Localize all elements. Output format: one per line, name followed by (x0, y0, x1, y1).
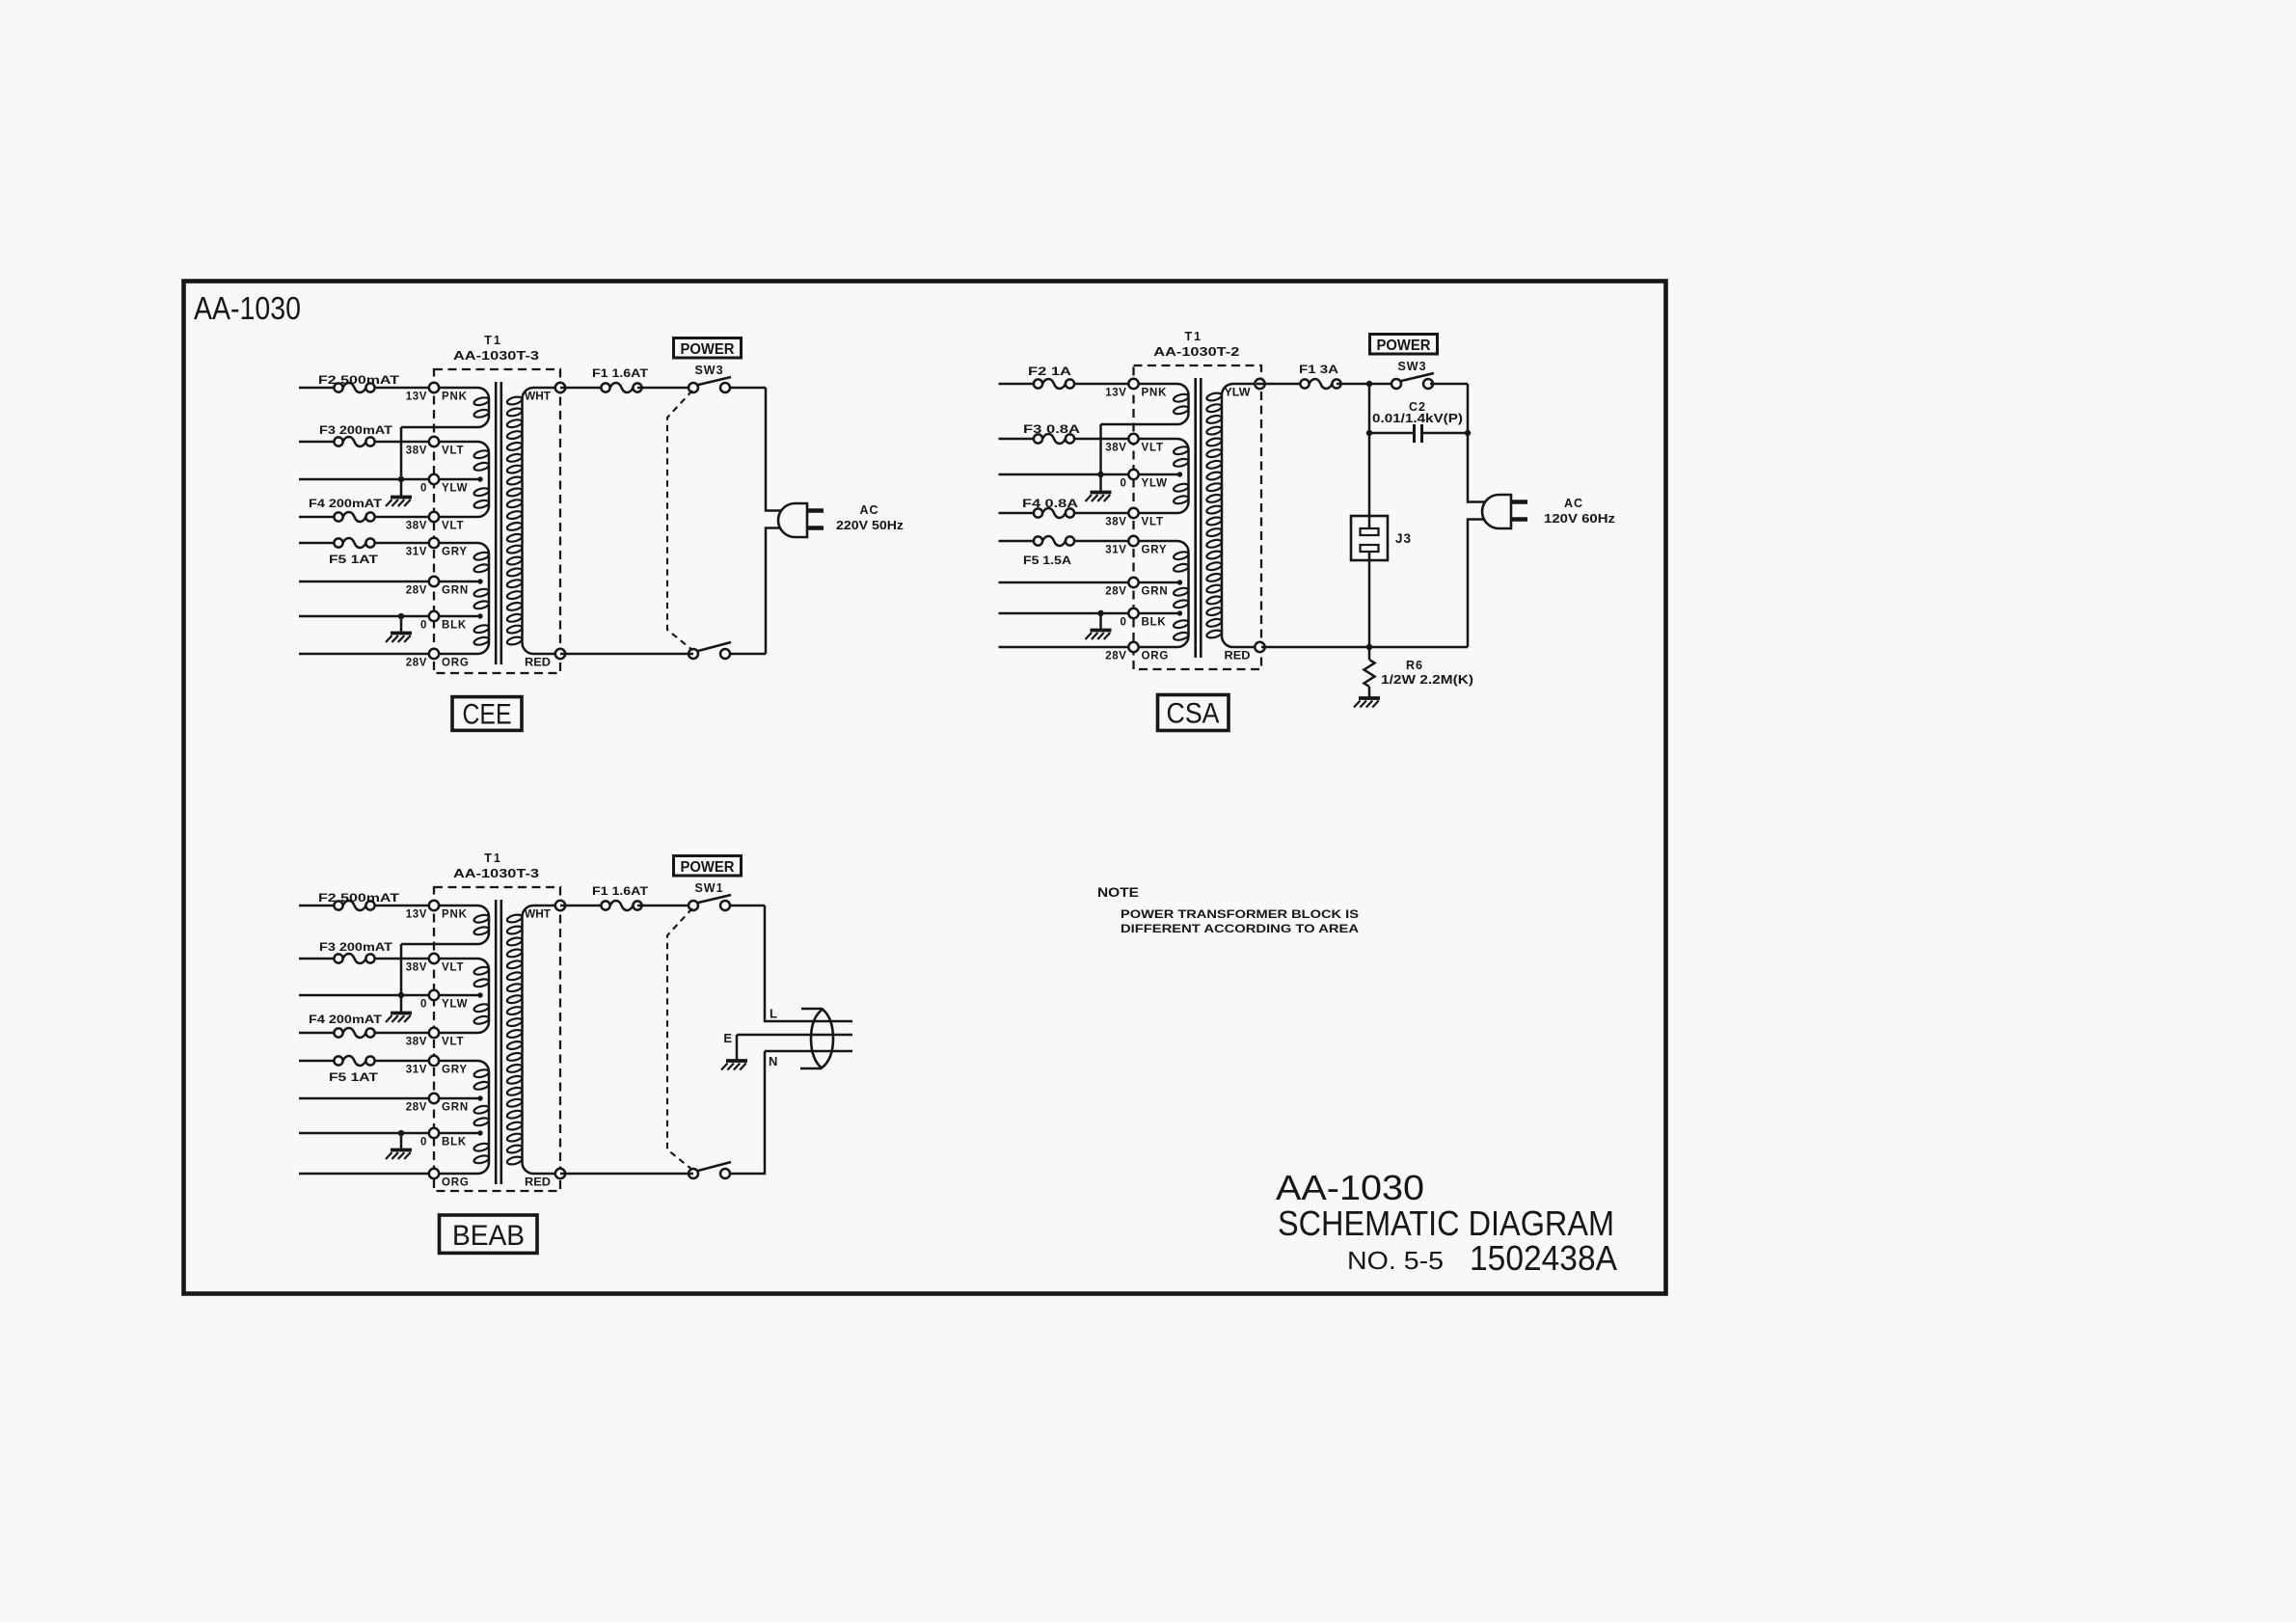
svg-text:ORG: ORG (1142, 651, 1170, 662)
svg-text:13V: 13V (1105, 388, 1126, 399)
wire secondary to F1 CSA (1256, 383, 1305, 386)
svg-text:GRY: GRY (442, 1065, 468, 1076)
svg-text:AA-1030T-3: AA-1030T-3 (453, 867, 539, 880)
wire AC bus top CSA plug (1468, 384, 1488, 502)
svg-text:AA-1030: AA-1030 (1276, 1168, 1424, 1207)
svg-text:31V: 31V (406, 547, 427, 558)
svg-text:AA-1030T-3: AA-1030T-3 (453, 349, 539, 363)
svg-text:F3 200mAT: F3 200mAT (319, 423, 393, 437)
fuse F3 CSA (1034, 434, 1074, 444)
wire F1 to SW3 CEE (637, 387, 693, 390)
border frame (184, 282, 1666, 1294)
primary winding GRY-GRN-BLK-ORG CEE (434, 543, 490, 654)
wire AC bus bottom CEE plug (766, 528, 784, 655)
svg-text:AC: AC (1564, 497, 1583, 510)
svg-text:38V: 38V (406, 962, 427, 974)
svg-text:POWER: POWER (1377, 338, 1431, 354)
primary terminals BEAB (429, 901, 439, 1178)
ground at 0 YLW CEE (386, 479, 412, 506)
svg-text:VLT: VLT (442, 446, 464, 457)
switch SW1 top pole BEAB (689, 895, 731, 910)
svg-text:RED: RED (1225, 651, 1251, 662)
svg-text:ORG: ORG (442, 658, 470, 669)
svg-text:L: L (770, 1007, 777, 1021)
jack J3 CSA (1351, 516, 1388, 560)
switch SW3 bottom pole CEE (689, 642, 731, 659)
svg-text:F3 0.8A: F3 0.8A (1023, 422, 1080, 436)
svg-text:GRN: GRN (442, 585, 469, 597)
node junction F1-SW3 CSA (1366, 381, 1372, 387)
svg-text:F2 1A: F2 1A (1028, 365, 1071, 378)
wire feed lines CEE (299, 388, 434, 654)
ground at 0 BLK CEE (386, 613, 412, 642)
svg-text:38V: 38V (406, 446, 427, 457)
svg-text:F2 500mAT: F2 500mAT (318, 373, 400, 387)
svg-text:T1: T1 (1185, 330, 1203, 343)
svg-text:SW3: SW3 (1397, 360, 1426, 373)
wire AC bus bottom CSA plug (1468, 520, 1488, 648)
svg-text:AA-1030T-2: AA-1030T-2 (1153, 345, 1239, 359)
ground at 0 BLK CSA (1086, 610, 1112, 639)
wire jumper to 0 CEE (398, 427, 404, 482)
svg-text:VLT: VLT (442, 1037, 464, 1048)
primary winding PNK BEAB (401, 906, 490, 944)
svg-text:YLW: YLW (442, 999, 468, 1011)
svg-text:VLT: VLT (1142, 517, 1164, 528)
svg-text:PNK: PNK (1142, 388, 1168, 399)
svg-text:YLW: YLW (442, 483, 468, 495)
power box CSA (1370, 335, 1438, 355)
secondary winding BEAB (506, 906, 560, 1174)
node junction bottom CSA (1366, 644, 1372, 650)
svg-text:POWER: POWER (681, 859, 735, 876)
transformer T1 dashed box CEE (434, 369, 560, 673)
svg-text:GRY: GRY (442, 547, 468, 558)
svg-text:38V: 38V (406, 1037, 427, 1048)
wire bottom RED to switch CEE (560, 653, 693, 656)
svg-text:F1 1.6AT: F1 1.6AT (592, 366, 649, 380)
cable sheath BEAB (800, 1009, 833, 1068)
svg-text:13V: 13V (406, 909, 427, 921)
svg-text:CEE: CEE (463, 699, 512, 731)
svg-text:YLW: YLW (1142, 478, 1168, 490)
svg-text:31V: 31V (1105, 545, 1126, 556)
fuse F1 CSA (1300, 379, 1340, 389)
fuse F4 CSA (1034, 508, 1074, 518)
wire bottom RED to switch BEAB (560, 1173, 693, 1176)
svg-text:0: 0 (420, 620, 427, 632)
svg-text:PNK: PNK (442, 392, 468, 403)
wire C2 right CSA (1422, 430, 1472, 436)
fuse F5 CSA (1034, 536, 1074, 546)
AC plug CEE plug (778, 503, 824, 537)
ground at 0 BLK BEAB (386, 1130, 412, 1159)
wire N to cable BEAB (765, 1050, 852, 1053)
power box CEE (674, 338, 742, 359)
svg-text:RED: RED (525, 658, 551, 669)
svg-text:AA-1030: AA-1030 (194, 290, 301, 326)
svg-text:SCHEMATIC DIAGRAM: SCHEMATIC DIAGRAM (1278, 1203, 1614, 1243)
switch SW1 bottom pole BEAB (689, 1162, 731, 1178)
svg-text:38V: 38V (406, 521, 427, 532)
svg-text:0: 0 (1121, 617, 1127, 629)
wire switch to bus CSA (1430, 383, 1468, 386)
svg-text:28V: 28V (1105, 651, 1126, 662)
switch gang dashed link BEAB (667, 908, 692, 1170)
svg-text:WHT: WHT (525, 909, 551, 921)
primary terminals CEE (429, 383, 439, 659)
svg-text:POWER: POWER (681, 341, 735, 358)
fuse F4 BEAB (334, 1028, 374, 1038)
svg-text:F4 0.8A: F4 0.8A (1022, 497, 1078, 510)
svg-text:GRY: GRY (1142, 545, 1168, 556)
svg-text:28V: 28V (406, 585, 427, 597)
fuse F1 BEAB (601, 901, 641, 910)
secondary winding CEE (506, 388, 560, 654)
svg-text:31V: 31V (406, 1065, 427, 1076)
svg-text:E: E (723, 1031, 732, 1045)
svg-text:CSA: CSA (1167, 698, 1220, 730)
primary winding GRY-GRN-BLK-ORG BEAB (434, 1061, 490, 1174)
fuse F2 CEE (334, 383, 374, 392)
svg-text:F5 1AT: F5 1AT (329, 553, 379, 566)
svg-text:VLT: VLT (442, 962, 464, 974)
fuse F5 BEAB (334, 1056, 374, 1066)
transformer core CEE (496, 382, 501, 664)
svg-text:AC: AC (859, 503, 878, 517)
wire bottom switch to bus CEE (730, 653, 767, 656)
ground E BEAB (721, 1035, 747, 1070)
svg-text:POWER TRANSFORMER BLOCK IS: POWER TRANSFORMER BLOCK IS (1121, 907, 1359, 921)
wire bus N to switch BEAB (730, 1051, 766, 1174)
svg-text:0: 0 (1121, 478, 1127, 490)
wire to J3 CSA (1368, 433, 1371, 516)
svg-text:0: 0 (420, 483, 427, 495)
svg-text:VLT: VLT (1142, 443, 1164, 454)
svg-text:RED: RED (525, 1177, 551, 1189)
wire switch to bus BEAB (730, 905, 766, 907)
primary terminals CSA (1128, 379, 1138, 652)
svg-text:F1 1.6AT: F1 1.6AT (592, 884, 649, 898)
transformer core BEAB (496, 900, 501, 1184)
svg-text:F4 200mAT: F4 200mAT (309, 497, 383, 510)
svg-text:T1: T1 (484, 852, 502, 865)
svg-text:T1: T1 (484, 334, 502, 347)
primary winding VLT-YLW CSA (1134, 439, 1190, 513)
ground at 0 YLW CSA (1086, 474, 1112, 501)
primary winding VLT-YLW CEE (434, 442, 490, 517)
switch gang dashed link CEE (667, 391, 692, 650)
transformer T1 dashed box CSA (1134, 365, 1262, 669)
svg-text:F4 200mAT: F4 200mAT (309, 1013, 383, 1026)
svg-text:F1 3A: F1 3A (1299, 363, 1338, 376)
primary winding GRY-GRN-BLK-ORG CSA (1134, 541, 1190, 647)
label box BEAB (440, 1215, 538, 1253)
fuse F3 CEE (334, 437, 374, 446)
svg-text:F5 1.5A: F5 1.5A (1023, 554, 1071, 567)
svg-text:28V: 28V (1105, 586, 1126, 598)
svg-text:SW1: SW1 (694, 881, 723, 895)
svg-text:28V: 28V (406, 1102, 427, 1114)
svg-text:WHT: WHT (525, 392, 551, 403)
winding tap labels CSA (1105, 388, 1169, 662)
transformer core CSA (1196, 378, 1202, 658)
svg-text:13V: 13V (406, 392, 427, 403)
svg-text:38V: 38V (1105, 517, 1126, 528)
svg-text:NO. 5-5: NO. 5-5 (1347, 1246, 1444, 1275)
wire bottom RED to bus CSA (1261, 646, 1468, 649)
svg-text:BLK: BLK (442, 620, 467, 632)
fuse F3 BEAB (334, 954, 374, 963)
fuse F1 CEE (601, 383, 641, 392)
svg-text:SW3: SW3 (694, 364, 723, 377)
secondary winding CSA (1206, 384, 1260, 647)
switch SW3 top pole CEE (689, 377, 731, 392)
svg-text:J3: J3 (1395, 531, 1412, 546)
secondary terminals CSA (1255, 379, 1264, 652)
svg-text:120V 60Hz: 120V 60Hz (1544, 512, 1615, 526)
label box CEE (452, 697, 522, 731)
svg-text:1502438A: 1502438A (1470, 1238, 1617, 1278)
wire J3 to bottom CSA (1368, 560, 1371, 647)
svg-text:28V: 28V (406, 658, 427, 669)
svg-text:PNK: PNK (442, 909, 468, 921)
primary winding VLT-YLW BEAB (434, 959, 490, 1033)
svg-text:BEAB: BEAB (452, 1220, 525, 1252)
svg-text:F5 1AT: F5 1AT (329, 1070, 379, 1084)
svg-text:0: 0 (420, 999, 427, 1011)
svg-text:NOTE: NOTE (1097, 885, 1139, 900)
transformer T1 dashed box BEAB (434, 887, 560, 1191)
wire switch to bus CEE (730, 387, 767, 390)
wire F1 to SW3 CSA (1337, 383, 1396, 386)
svg-text:1/2W 2.2M(K): 1/2W 2.2M(K) (1381, 673, 1473, 687)
svg-text:VLT: VLT (442, 521, 464, 532)
wire secondary to F1 BEAB (560, 905, 606, 907)
wire feed lines CSA (999, 384, 1134, 647)
power box BEAB (674, 856, 742, 877)
svg-text:F3 200mAT: F3 200mAT (319, 940, 393, 954)
wire secondary to F1 CEE (560, 387, 606, 390)
wire bus to L BEAB (765, 906, 852, 1021)
svg-text:F2 500mAT: F2 500mAT (318, 891, 400, 905)
svg-text:0: 0 (420, 1137, 427, 1149)
fuse F2 CSA (1034, 379, 1074, 389)
wire jumper to 0 CSA (1097, 424, 1103, 477)
svg-text:R6: R6 (1406, 659, 1423, 672)
ground at 0 YLW BEAB (386, 995, 412, 1022)
fuse F4 CEE (334, 512, 374, 522)
secondary terminals BEAB (555, 901, 565, 1178)
primary winding PNK CEE (401, 388, 490, 427)
wire F1 to SW1 BEAB (637, 905, 693, 907)
svg-text:BLK: BLK (1142, 617, 1167, 629)
fuse F2 BEAB (334, 901, 374, 910)
svg-text:0.01/1.4kV(P): 0.01/1.4kV(P) (1372, 412, 1463, 425)
winding tap labels CEE (406, 392, 470, 669)
label box CSA (1158, 695, 1229, 731)
svg-text:DIFFERENT ACCORDING TO AREA: DIFFERENT ACCORDING TO AREA (1121, 922, 1359, 935)
wire E to cable BEAB (737, 1034, 852, 1037)
svg-text:YLW: YLW (1225, 388, 1251, 399)
AC plug CSA plug (1482, 495, 1527, 528)
wire jumper to 0 BEAB (398, 944, 404, 998)
switch SW3 top pole CSA (1391, 373, 1434, 389)
svg-text:GRN: GRN (442, 1102, 469, 1114)
svg-text:220V 50Hz: 220V 50Hz (836, 519, 904, 532)
capacitor C2 CSA (1415, 424, 1422, 443)
svg-text:38V: 38V (1105, 443, 1126, 454)
svg-text:GRN: GRN (1142, 586, 1169, 598)
svg-text:N: N (769, 1054, 777, 1068)
wire feed lines BEAB (299, 906, 434, 1174)
resistor R6 CSA (1364, 647, 1375, 687)
fuse F5 CEE (334, 538, 374, 548)
wire AC bus top CEE plug (766, 388, 784, 511)
svg-text:ORG: ORG (442, 1177, 470, 1189)
svg-text:BLK: BLK (442, 1137, 467, 1149)
ground R6 CSA (1354, 687, 1380, 708)
primary winding PNK CSA (1101, 384, 1190, 424)
secondary terminals CEE (555, 383, 565, 659)
winding tap labels BEAB (406, 909, 470, 1189)
wire C2 left CSA (1366, 384, 1415, 436)
